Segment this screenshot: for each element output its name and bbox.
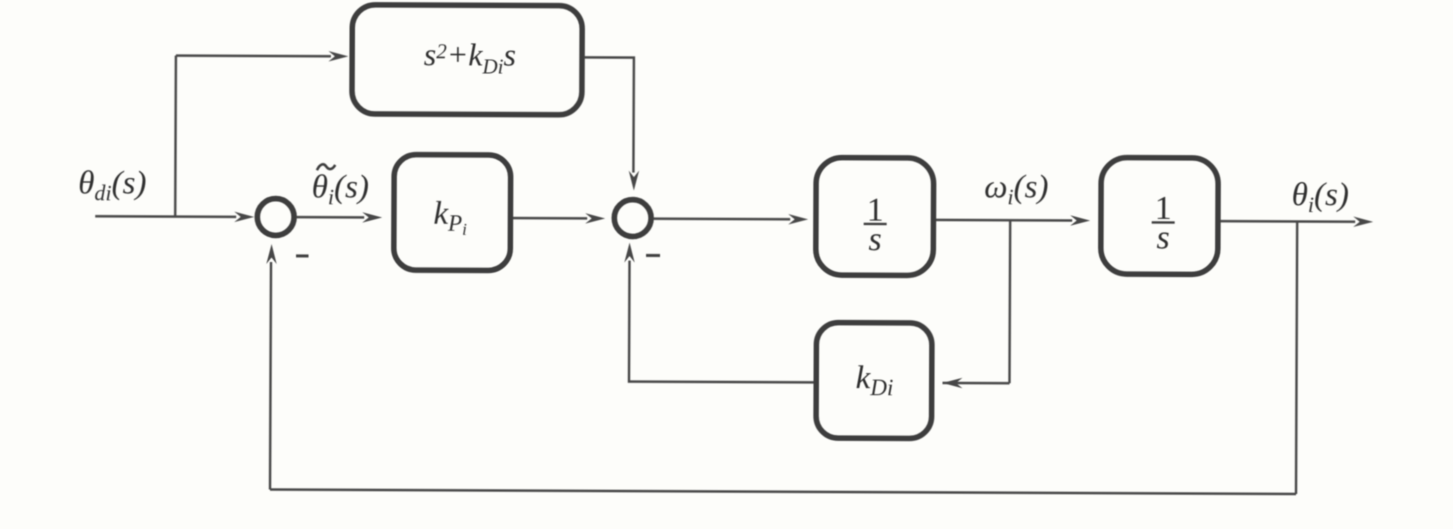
block U4: integrator 1/s (position) [1101,157,1219,274]
node: takeoff point feeding feedforward block [174,56,177,217]
svg-text:kPi: kPi [433,196,467,239]
wire: feedforward branch into block s^2+kDi*s [176,50,349,61]
block U3: integrator 1/s (velocity) [816,157,934,275]
wire: output line with arrow [1220,216,1373,227]
svg-text:s2+kDis: s2+kDis [424,36,516,78]
node: takeoff point feeding kDi feedback [1008,220,1011,383]
wire: feedforward block output down into summing junction S2 [583,57,639,190]
value label 1/s of second integrator [1152,190,1175,257]
label theta~_i(s) after S1 [312,164,369,209]
block U1: feedforward s^2 + kDi s [352,5,582,115]
block U2: proportional gain kPi [394,154,511,270]
wire: outer feedback up into summing junction S1 (minus input) [265,244,276,490]
block U5: derivative gain kDi [816,322,932,438]
svg-text:θi(s): θi(s) [312,169,369,209]
wire: outer feedback bottom run [270,490,1296,494]
node: takeoff point of outer position feedback [1296,221,1297,493]
svg-text:kDi: kDi [856,360,894,400]
wire: S1 output to block kPi [296,212,382,223]
minus sign at S1 [296,254,308,257]
summing junction S1 [257,199,294,236]
summing junction S2 [614,200,651,237]
wire: S2 output into integrator block 1/s (first) [653,213,808,224]
wire: integrator1 output to integrator2 [936,215,1090,226]
svg-text:θi(s): θi(s) [1292,177,1349,217]
wire: tachometer feedback from omega takeoff into kDi block [942,378,1009,389]
svg-text:θdi(s): θdi(s) [78,165,146,205]
wire: kDi output up into summing junction S2 (minus input) [624,243,814,383]
svg-text:ωi(s): ωi(s) [984,169,1048,209]
svg-text:s: s [868,221,881,258]
value label 1/s of first integrator [864,191,887,258]
wire: input line into summing junction S1 [95,211,254,222]
minus sign at S2 [646,254,660,257]
svg-text:s: s [1156,219,1169,256]
wire: kPi output into summing junction S2 [513,213,605,224]
